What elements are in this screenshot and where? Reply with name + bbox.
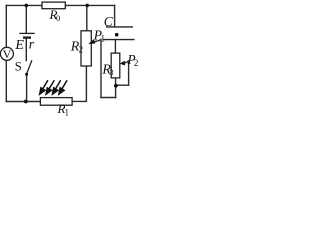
wire left side <box>5 5 7 101</box>
capacitor C plates <box>103 27 135 40</box>
svg-text:1: 1 <box>100 35 105 45</box>
label R0 <box>49 7 61 23</box>
wire P2 to R3 bottom junction <box>116 84 129 86</box>
svg-text:C: C <box>104 14 114 29</box>
svg-text:1: 1 <box>65 107 70 117</box>
node top battery junction <box>25 4 29 8</box>
resistor R3 (potentiometer) <box>111 53 120 78</box>
label P1 <box>93 27 106 44</box>
wire R2 top <box>86 5 88 30</box>
capacitor junction dot <box>115 33 119 37</box>
wire top side <box>6 4 114 6</box>
wire R1 right to R2 bottom <box>72 66 86 101</box>
node R3 bottom junction <box>114 84 118 88</box>
svg-text:V: V <box>3 47 12 61</box>
wire bottom inner horizontal <box>101 97 116 99</box>
wire capacitor feed <box>114 5 116 27</box>
wire R3 bottom stem <box>115 78 117 98</box>
svg-text:E: E <box>14 38 24 53</box>
switch S contact dot <box>25 73 28 76</box>
node bottom battery junction <box>24 100 28 104</box>
battery E r plates <box>19 33 34 37</box>
svg-text:r: r <box>29 37 35 52</box>
light arrow 2 <box>46 80 54 94</box>
wire bottom side <box>6 101 40 103</box>
voltmeter V <box>0 47 13 61</box>
wiper arrow P2 <box>120 61 125 66</box>
wire P1 wiper vertical <box>95 39 102 98</box>
light arrow 4 <box>59 80 67 94</box>
wire battery to switch <box>25 39 27 61</box>
resistor R1 (photoresistor) <box>40 98 72 106</box>
svg-text:0: 0 <box>56 13 60 23</box>
resistor R0 <box>42 2 65 9</box>
wire P2 wiper <box>125 60 129 85</box>
label R2 <box>70 39 83 54</box>
svg-text:2: 2 <box>79 44 84 54</box>
resistor R2 (potentiometer) <box>81 31 91 66</box>
wire R3 top stem <box>114 40 116 54</box>
wire switch to bottom <box>26 74 28 101</box>
light arrow 3 <box>53 80 61 94</box>
node top R2 junction <box>85 4 89 8</box>
label R3 <box>101 63 113 78</box>
label P2 <box>126 52 138 68</box>
svg-text:3: 3 <box>109 67 113 77</box>
wire battery branch upper <box>25 5 27 33</box>
svg-text:2: 2 <box>134 58 139 68</box>
switch S blade <box>27 60 32 74</box>
light arrow 1 <box>40 80 48 94</box>
label R1 <box>57 101 70 117</box>
wiper arrow P1 <box>88 39 95 44</box>
svg-text:S: S <box>15 59 22 73</box>
